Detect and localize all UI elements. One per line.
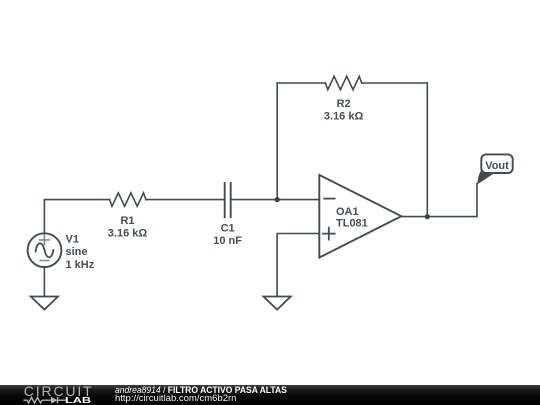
junction node at output xyxy=(425,214,430,219)
Vout flag box xyxy=(477,154,512,184)
resistor R2 xyxy=(325,76,361,89)
ground under plus input xyxy=(264,297,291,310)
source V1 plus mark xyxy=(40,235,49,244)
wire C1 to op-amp minus input xyxy=(232,199,320,201)
wire V1 bottom to ground xyxy=(43,267,45,297)
CircuitLab logo CIRCUIT xyxy=(24,384,94,398)
wire feedback top left xyxy=(277,82,325,84)
junction node at C1/feedback xyxy=(275,197,280,202)
wire V1 top to R1 xyxy=(44,200,109,234)
wire op-amp output xyxy=(401,184,477,217)
wire op-amp plus input xyxy=(277,234,319,297)
footer line 2 xyxy=(115,394,236,404)
wire feedback left vertical xyxy=(276,83,278,200)
op-amp plus sign xyxy=(323,228,335,240)
wire R1 to C1 xyxy=(146,199,224,201)
capacitor C1 xyxy=(225,183,231,217)
wire feedback top right xyxy=(362,82,428,84)
source V1 minus mark xyxy=(40,260,49,262)
ground under V1 xyxy=(31,297,58,310)
footer line 1 xyxy=(115,386,287,396)
wire feedback right vertical xyxy=(426,83,428,217)
op-amp minus sign xyxy=(324,198,334,200)
source V1 circle xyxy=(28,233,62,267)
footer bar xyxy=(0,385,540,405)
op-amp U1 body xyxy=(319,175,401,258)
resistor R1 xyxy=(110,193,146,206)
CircuitLab logo LAB xyxy=(65,396,91,405)
source V1 sine wave xyxy=(36,243,54,257)
